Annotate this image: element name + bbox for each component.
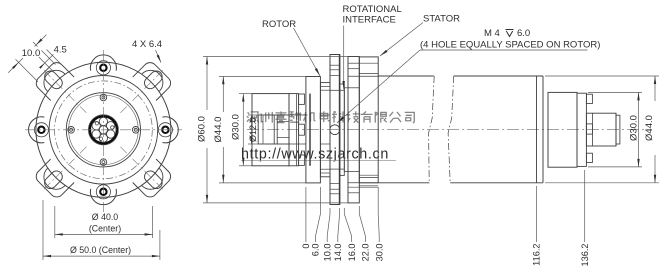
svg-text:10.0: 10.0 <box>22 48 41 59</box>
ordinate dim 10.0 <box>327 208 330 242</box>
front view horizontal centerline <box>25 129 182 131</box>
dim D40 (Center) extension lines <box>54 206 56 238</box>
flange silhouette line <box>330 193 340 195</box>
dim D30L line <box>242 94 244 166</box>
front view vertical centerline <box>102 50 104 212</box>
small hole 1 <box>100 94 107 101</box>
dim 4.5 line <box>41 45 63 67</box>
left connector D12 plug <box>258 115 289 144</box>
wire gap filler <box>99 137 102 140</box>
svg-text:Ø30.0: Ø30.0 <box>230 114 241 140</box>
svg-text:0: 0 <box>301 244 311 249</box>
leader 4 HOLE note <box>337 50 420 123</box>
break line left <box>429 76 435 183</box>
front view: flange outline circle <box>36 62 171 197</box>
dim 4.5 extension lines <box>39 57 57 75</box>
dim D30R line <box>638 92 640 166</box>
dim D30L extension lines <box>239 93 252 95</box>
left connector tabs <box>299 94 305 104</box>
svg-text:Ø 40.0: Ø 40.0 <box>92 212 119 222</box>
tab slot 6.4 stadium 2 <box>145 71 163 89</box>
svg-text:16.0: 16.0 <box>347 244 357 262</box>
stator block inner lines <box>359 62 378 64</box>
tab slot 6.4 stadium 1 <box>45 71 63 89</box>
ordinate dim 14.0 <box>338 208 340 242</box>
wire gap filler <box>95 122 98 125</box>
rotor spacer <box>320 83 330 177</box>
right plug end cap <box>615 113 617 146</box>
wire 1 <box>99 134 107 142</box>
wire 6 <box>106 130 114 138</box>
depth symbol <box>506 30 514 37</box>
watermark company name <box>247 112 259 123</box>
dim text 4.5 <box>52 44 69 55</box>
leader STATOR <box>380 23 423 57</box>
svg-text:M 4: M 4 <box>484 28 500 39</box>
svg-text:22.0: 22.0 <box>361 244 371 262</box>
dim D44L line <box>222 76 224 112</box>
svg-text:30.0: 30.0 <box>374 244 384 262</box>
underline of note <box>420 49 588 51</box>
flange silhouette line <box>330 183 340 185</box>
tab counterbore arc 10.0 4 <box>44 168 65 189</box>
front view: boss inner circle <box>69 95 139 165</box>
ordinate dim 116.2 <box>535 186 537 242</box>
dim D60 extension lines <box>203 56 348 58</box>
tab slot 6.4 stadium 4 <box>45 171 63 189</box>
rotor body inner thick line <box>309 94 311 166</box>
rotor flange right face thick <box>339 55 341 205</box>
svg-text:(Center): (Center) <box>89 224 121 234</box>
leader ROTOR <box>294 28 321 76</box>
dim D44R line <box>654 76 656 101</box>
ear lug 3 <box>90 189 116 205</box>
hub bore D12 thick ring <box>90 116 117 143</box>
svg-text:116.2: 116.2 <box>532 244 542 266</box>
dim D30R extension lines <box>588 91 642 93</box>
side view horizontal centerline <box>247 129 652 131</box>
flange silhouette line <box>330 69 340 71</box>
tab lug 1 (diagonal) <box>36 63 74 101</box>
right connector face plate <box>577 93 586 166</box>
tab counterbore arc 10.0 1 <box>44 70 65 91</box>
break line right <box>448 76 454 183</box>
spacer line <box>320 172 330 174</box>
stator ring step lines <box>348 62 359 64</box>
right plug D12 <box>586 113 616 146</box>
right connector tabs <box>586 94 592 103</box>
right connector base D30 <box>548 92 577 167</box>
flange silhouette line <box>330 188 340 190</box>
dim D44L extension lines <box>219 76 306 78</box>
rotor flange plate <box>330 55 340 205</box>
stator cylinder bottom edge (right of break) <box>450 182 543 184</box>
dim text D50 <box>64 244 137 255</box>
small hole 3 <box>100 159 107 166</box>
dim D60 line <box>206 57 208 111</box>
flange silhouette line <box>330 64 340 66</box>
ear lug 1 <box>90 55 116 71</box>
ear lug 2 <box>163 117 179 143</box>
rotor bore lines <box>289 114 306 116</box>
diagonal centerline <box>42 68 87 113</box>
left connector D30 body <box>252 94 289 166</box>
rotor body plate <box>306 77 321 183</box>
svg-text:ROTATIONAL: ROTATIONAL <box>343 4 402 15</box>
svg-text:ROTOR: ROTOR <box>262 19 296 30</box>
stator cylinder top edge (right of break) <box>454 75 543 77</box>
svg-text:(4 HOLE EQUALLY SPACED ON ROTO: (4 HOLE EQUALLY SPACED ON ROTOR) <box>420 40 600 51</box>
rotor boss lines (section) <box>330 89 344 91</box>
front view: body circle D44 <box>49 76 158 185</box>
cylinder end face <box>536 76 538 183</box>
left connector face plate <box>289 94 299 166</box>
svg-text:Ø60.0: Ø60.0 <box>197 116 208 142</box>
wire 2 <box>92 130 100 138</box>
M4 hole circle on flange <box>330 125 340 135</box>
front view: boss circle D30 <box>66 93 140 167</box>
dim text 10.0 <box>21 47 42 59</box>
M4 tapped hole 4 <box>34 123 48 137</box>
tab lug 2 (diagonal) <box>133 63 171 101</box>
spacer line <box>320 168 330 170</box>
diagonal centerline <box>42 147 87 192</box>
svg-text:Ø30.0: Ø30.0 <box>628 115 639 141</box>
small hole 2 <box>132 127 139 134</box>
left connector inner lines <box>262 115 264 144</box>
tab counterbore arc 10.0 2 <box>142 70 163 91</box>
small hole 4 <box>68 127 75 134</box>
spacer line <box>320 85 330 87</box>
flange silhouette line <box>330 75 340 77</box>
dim D50 line <box>43 255 160 257</box>
rotor collar <box>340 84 345 175</box>
dim D44R extension lines <box>545 75 659 77</box>
dim 10.0 extension lines <box>33 42 56 65</box>
dim D12 extension lines <box>248 114 265 116</box>
diagonal centerline <box>120 68 164 113</box>
right plug inner line <box>591 113 593 146</box>
wire center <box>99 126 107 134</box>
M4 tapped hole 1 <box>96 61 110 75</box>
tab slot 6.4 stadium 3 <box>145 171 163 189</box>
svg-text:STATOR: STATOR <box>423 14 460 25</box>
spacer line <box>320 89 330 91</box>
wire 5 <box>106 122 114 130</box>
tab lug 4 (diagonal) <box>36 159 74 197</box>
svg-text:10.0: 10.0 <box>322 244 332 262</box>
tab lug 3 (diagonal) <box>133 159 171 197</box>
svg-text:http://www.szjarch.cn: http://www.szjarch.cn <box>241 146 389 162</box>
leader ROTATIONAL INTERFACE <box>343 26 345 90</box>
ordinate dim 16.0 <box>344 208 351 242</box>
stator front lip <box>343 88 345 172</box>
wire 3 <box>92 122 100 130</box>
stator housing block <box>359 57 378 183</box>
ordinate dim 30.0 <box>378 187 379 242</box>
ear lug 4 <box>29 117 45 143</box>
wire gap filler <box>111 126 114 129</box>
svg-text:4 X 6.4: 4 X 6.4 <box>132 39 162 50</box>
ordinate dim 22.0 <box>359 206 365 242</box>
dim 10.0 line <box>8 35 46 73</box>
svg-text:6.0: 6.0 <box>311 244 321 257</box>
ordinate dim 0 <box>305 187 307 242</box>
stator cylinder bottom edge (left of break) <box>378 182 429 184</box>
M4 tapped hole 3 <box>96 185 110 199</box>
diagonal centerline <box>120 147 164 192</box>
ordinate dim 6.0 <box>316 187 321 242</box>
stator front ring <box>348 57 359 203</box>
svg-text:14.0: 14.0 <box>333 244 343 262</box>
svg-text:INTERFACE: INTERFACE <box>343 15 396 26</box>
svg-text:Ø12.0: Ø12.0 <box>248 117 258 142</box>
M4 tapped hole 2 <box>158 123 172 137</box>
dim D50 (Center) extension lines <box>42 200 44 260</box>
svg-text:Ø 50.0 (Center): Ø 50.0 (Center) <box>70 245 131 255</box>
ordinate dim 136.2 <box>584 170 586 242</box>
front view: center circle D40 (dash-dot) <box>55 81 153 179</box>
svg-text:Ø44.0: Ø44.0 <box>213 117 224 143</box>
wire 4 <box>99 117 107 125</box>
svg-text:4.5: 4.5 <box>54 44 67 55</box>
tab counterbore arc 10.0 3 <box>142 168 163 189</box>
svg-text:136.2: 136.2 <box>580 244 590 267</box>
dim D12 line <box>251 115 253 144</box>
dim D40 line <box>55 233 153 235</box>
leader 4x6.4 <box>156 50 162 63</box>
svg-text:6.0: 6.0 <box>517 28 530 39</box>
svg-text:Ø44.0: Ø44.0 <box>644 115 655 141</box>
stator cylinder top edge (left of break) <box>378 75 434 77</box>
